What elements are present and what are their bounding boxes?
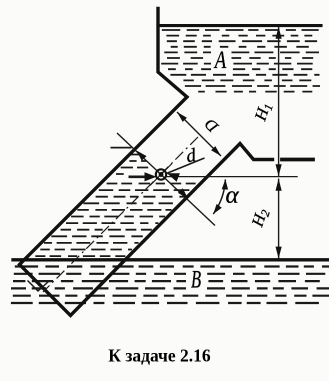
- svg-text:A: A: [213, 45, 226, 73]
- svg-text:α: α: [225, 182, 239, 209]
- svg-text:К задаче 2.16: К задаче 2.16: [108, 346, 211, 366]
- svg-text:B: B: [191, 265, 201, 293]
